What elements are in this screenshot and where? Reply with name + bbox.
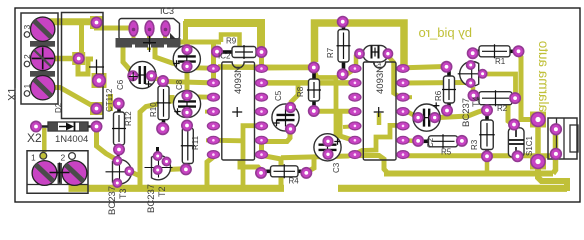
svg-text:R4: R4 [289,177,300,186]
svg-text:S1C1: S1C1 [525,135,534,156]
svg-text:R7: R7 [326,47,335,58]
svg-text:4093N: 4093N [375,66,386,94]
svg-text:D2: D2 [54,102,63,113]
svg-text:T3: T3 [118,188,128,199]
svg-text:X1: X1 [7,88,19,101]
svg-text:R11: R11 [191,135,200,150]
svg-text:R9: R9 [226,37,237,46]
svg-text:1: 1 [22,84,32,89]
svg-text:T2: T2 [157,186,167,197]
svg-text:2: 2 [61,153,66,163]
svg-text:C6: C6 [116,79,125,90]
svg-text:C8: C8 [175,79,184,90]
svg-text:BC237: BC237 [107,186,118,215]
svg-text:alarma auto: alarma auto [536,41,551,112]
svg-text:R5: R5 [441,148,452,157]
svg-text:R12: R12 [124,111,133,126]
svg-text:R3: R3 [470,139,479,150]
svg-text:CT112: CT112 [105,88,114,112]
svg-text:1: 1 [31,153,36,163]
svg-text:R1: R1 [495,57,506,66]
svg-text:2: 2 [22,54,32,59]
svg-text:C3: C3 [332,162,341,173]
svg-text:BC237: BC237 [146,184,157,213]
svg-text:1N4004: 1N4004 [55,134,88,145]
svg-text:R10: R10 [149,102,158,117]
svg-text:R8: R8 [296,86,305,97]
svg-text:C5: C5 [274,90,283,101]
svg-text:X2: X2 [27,131,42,145]
svg-text:4093N: 4093N [233,66,244,94]
svg-text:3: 3 [22,25,32,30]
svg-text:by pid_ro: by pid_ro [419,25,472,40]
svg-text:IC3: IC3 [160,6,174,16]
svg-text:C2: C2 [426,137,435,148]
svg-text:R2: R2 [497,104,508,113]
svg-text:IC2: IC2 [218,52,231,61]
svg-text:T4: T4 [471,96,481,107]
svg-text:R6: R6 [434,90,443,101]
